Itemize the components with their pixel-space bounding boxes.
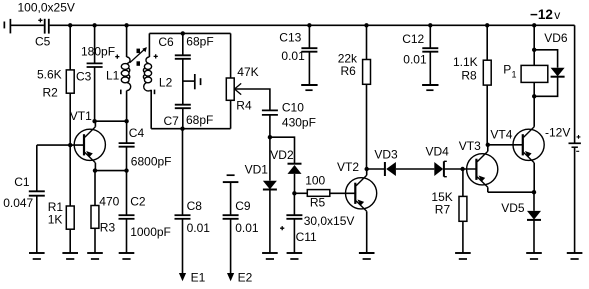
diode VD5 (pointing down) [527, 211, 541, 220]
wire: C8 top [182, 129, 184, 215]
svg-text:P: P [503, 62, 511, 76]
inductor L1 winding [121, 57, 130, 91]
junction: top rail / C13 [307, 23, 311, 27]
svg-text:0.01: 0.01 [403, 53, 427, 67]
wire: C6 bottom to C7 top [182, 59, 184, 105]
svg-text:430pF: 430pF [282, 116, 316, 130]
resistor R2 [66, 70, 74, 93]
wire: C12 to mini ground [429, 52, 431, 85]
svg-text:C12: C12 [402, 32, 424, 46]
svg-text:470: 470 [99, 195, 119, 209]
diode VD1 (pointing down) [263, 181, 277, 190]
ground under C11 [287, 253, 303, 259]
plus sign of C5 [38, 18, 42, 22]
wire: C13 top [308, 25, 310, 48]
wire: C2 to ground [126, 219, 128, 253]
svg-text:47K: 47K [237, 65, 258, 79]
wire: VD2 bottom to R5 node [294, 174, 296, 193]
wire: R2 top [69, 25, 71, 70]
junction: top rail / C3 [92, 23, 96, 27]
svg-text:v: v [554, 8, 560, 22]
R4 wiper arrow [235, 83, 242, 94]
wire: L2 bottom lead [150, 91, 152, 129]
ground under R7 [455, 253, 471, 259]
svg-text:C4: C4 [129, 126, 145, 140]
junction: collector wire / L1 / C4 [124, 119, 128, 123]
svg-text:C8: C8 [187, 199, 203, 213]
winding start tick L1 [120, 90, 122, 95]
wire: C2 top [126, 171, 128, 216]
wire: L1 bottom lead [126, 91, 128, 122]
resistor R5 [307, 190, 330, 197]
wire: C4 bottom [126, 147, 128, 171]
tap terminal bar [194, 74, 196, 89]
wire: R6 top [366, 25, 368, 59]
junction: tank bottom rail / C7 / C8 [180, 127, 184, 131]
wire: C1 to ground [36, 196, 38, 253]
capacitor C8 [175, 215, 191, 219]
transformer core dashes [137, 49, 141, 66]
transistor VT4 (PNP) [513, 127, 544, 163]
svg-text:180pF: 180pF [81, 44, 115, 58]
wire: R5 right to VT2 base [330, 192, 356, 194]
relay coil P1 [521, 65, 548, 82]
wire: VT3 collector to VT4 base [488, 144, 524, 146]
wire: R7 to ground [462, 221, 464, 252]
transistor VT1 (PNP) [74, 127, 105, 163]
svg-text:R8: R8 [461, 68, 477, 82]
svg-text:VT3: VT3 [459, 139, 481, 153]
E1 output arrow [179, 273, 186, 281]
svg-text:VT4: VT4 [490, 128, 512, 142]
wire: R4 top stub [230, 33, 232, 78]
wire: L2/C6/R4 top rail [149, 32, 230, 34]
capacitor C2 [119, 215, 135, 219]
battery GB1 [569, 143, 581, 147]
transistor VT2 (PNP) [346, 175, 377, 211]
resistor R6 [363, 60, 371, 85]
svg-text:L2: L2 [159, 75, 173, 89]
wire: VT3 emitter stub [487, 187, 489, 192]
wire: VD3 left [367, 168, 385, 170]
svg-text:0.01: 0.01 [187, 221, 211, 235]
ground under R1 [62, 253, 78, 259]
wire: C12 top [429, 25, 431, 48]
svg-text:R2: R2 [43, 86, 59, 100]
svg-text:100: 100 [305, 174, 325, 188]
svg-text:VD5: VD5 [501, 201, 525, 215]
ground under VD5 [526, 253, 542, 259]
junction: top rail / C12 [428, 23, 432, 27]
winding start tick L2 [154, 90, 156, 95]
wire: R1 to ground [69, 229, 71, 252]
wire: VD4 to VT3 base [444, 168, 476, 170]
svg-text:1: 1 [512, 70, 517, 80]
battery minus tick [576, 150, 579, 152]
junction: emitter wire / C4 / C2 [124, 168, 128, 172]
wire: VT2 emitter stub [366, 211, 368, 252]
wire: tank bottom rail [151, 128, 230, 130]
E2 output arrow [227, 273, 234, 281]
wire: C13 to mini ground [308, 52, 310, 85]
wire: VT1 emitter stub [94, 163, 96, 171]
junction: relay bottom / VD6 bottom / VT4 collector [532, 94, 536, 98]
wire: -12V top rail [50, 24, 575, 26]
svg-text:1K: 1K [48, 213, 63, 227]
wire: L1 top lead [126, 25, 128, 57]
wire: relay branch top [533, 25, 535, 50]
mini ground under C13 [301, 85, 317, 90]
svg-text:C3: C3 [76, 70, 92, 84]
svg-text:C13: C13 [279, 31, 301, 45]
svg-text:R3: R3 [100, 220, 116, 234]
svg-text:6800pF: 6800pF [131, 155, 172, 169]
svg-text:C9: C9 [235, 199, 251, 213]
wire: battery to ground [574, 147, 576, 252]
input terminal bar [9, 19, 11, 34]
wire: VD1 top [269, 137, 271, 180]
wire: C9 top [230, 182, 232, 215]
svg-text:VD1: VD1 [245, 163, 269, 177]
wire: C10 bottom to VD1/VD2 node [269, 115, 271, 137]
svg-text:R5: R5 [310, 196, 326, 210]
junction: R8 / VT3 collector / VT4 base [486, 143, 490, 147]
wire: R8 bottom [486, 85, 488, 145]
svg-text:5.6K: 5.6K [37, 68, 62, 82]
wire: VT3 collector stub [487, 145, 489, 152]
svg-text:R7: R7 [435, 203, 451, 217]
junction: R6 / VT2 collector / VD3 [365, 167, 369, 171]
wire: VT1 collector wire [95, 120, 127, 122]
svg-text:-12V: -12V [545, 126, 570, 140]
svg-text:68pF: 68pF [186, 113, 213, 127]
wire: VT1 base wire [37, 144, 84, 146]
wire: VD6 bottom branch [534, 77, 557, 97]
ground under R3 [87, 253, 103, 259]
capacitor C12 [422, 48, 438, 52]
capacitor C1 [29, 191, 45, 195]
junction: top rail / relay branch [532, 23, 536, 27]
capacitor C4 [119, 143, 135, 147]
junction: top rail / R2 [68, 23, 72, 27]
wire: VT1 collector stub [94, 121, 96, 127]
svg-text:VT2: VT2 [337, 160, 359, 174]
wire: C4 top [126, 121, 128, 143]
resistor R4 (potentiometer) [226, 78, 234, 100]
svg-text:C7: C7 [164, 114, 180, 128]
capacitor C13 [301, 48, 317, 52]
diode VD3 (pointing left) [385, 162, 396, 176]
svg-text:1.1K: 1.1K [453, 55, 478, 69]
junction: top rail / R6 [364, 23, 368, 27]
wire: VT3 emitter to VT4 emitter [488, 191, 534, 193]
inverted ground above C9 [223, 175, 239, 182]
ground under VD1 [262, 253, 278, 259]
resistor R8 [483, 60, 491, 85]
svg-text:0.01: 0.01 [235, 221, 259, 235]
svg-text:L1: L1 [106, 69, 120, 83]
svg-text:100,0x25V: 100,0x25V [18, 1, 75, 15]
junction: top tank rail / C6 [181, 31, 185, 35]
wire: VD1 to ground [269, 190, 271, 253]
svg-text:C1: C1 [14, 175, 30, 189]
capacitor C11 (electrolytic) [286, 215, 302, 219]
junction: base wire / R2 / R1 [68, 143, 72, 147]
svg-text:0.01: 0.01 [281, 49, 305, 63]
wire: C3 bottom to VT1 collector node [94, 67, 96, 121]
wire: R3 top [94, 171, 96, 206]
plus sign C11 [280, 226, 284, 230]
svg-text:R6: R6 [341, 64, 357, 78]
battery plus sign [577, 135, 581, 139]
wire: relay top to coil [533, 50, 535, 66]
svg-text:VD4: VD4 [426, 144, 450, 158]
diode VD2 (pointing up) [288, 164, 302, 174]
svg-text:E1: E1 [191, 271, 206, 285]
capacitor C9 [223, 215, 239, 219]
svg-text:VD6: VD6 [544, 31, 568, 45]
wire: tap to terminal [183, 80, 195, 82]
wire: C11 top [293, 193, 295, 215]
svg-text:1000pF: 1000pF [130, 225, 171, 239]
wire: R8 top [486, 25, 488, 60]
wire: VD3 to VD4 [396, 168, 434, 170]
junction: VD2 / R5 / C11 [292, 191, 296, 195]
svg-text:R4: R4 [236, 99, 252, 113]
svg-text:C10: C10 [282, 101, 304, 115]
junction: VT4 emitter / VD5 [532, 190, 536, 194]
wire: R1 top [69, 145, 71, 206]
transistor VT3 (PNP) [467, 151, 498, 187]
plus sign L1 [115, 55, 119, 59]
wire: L2 top lead [148, 33, 150, 57]
wire: battery drop from top rail [574, 25, 576, 143]
wire: R6 bottom to VT2 collector node [366, 84, 368, 169]
inductor L2 winding [143, 57, 151, 91]
wire: R4 bottom [230, 100, 232, 128]
wire: input lead to C5 [10, 24, 44, 26]
wire: C11 to ground [293, 219, 295, 253]
wire: VD5 to ground [533, 220, 535, 253]
resistor R3 [91, 206, 99, 229]
capacitor C3 [87, 63, 103, 67]
node label I (input) [4, 22, 6, 29]
svg-text:30,0x15V: 30,0x15V [304, 214, 355, 228]
wire: VT1 emitter wire [95, 170, 127, 172]
capacitor C7 [175, 105, 191, 109]
node label I (tap) [200, 78, 202, 85]
wire: C7 bottom to tank bottom rail [182, 108, 184, 129]
svg-text:0.047: 0.047 [3, 196, 33, 210]
wire: VT2 collector stub [366, 169, 368, 175]
wire: C8 to E1 arrow [182, 219, 184, 274]
svg-text:VD2: VD2 [270, 148, 294, 162]
wire: C1 branch down [36, 145, 38, 191]
junction: top rail / R8 [485, 23, 489, 27]
ground under battery [567, 253, 583, 259]
svg-text:−12: −12 [530, 7, 553, 22]
wire: VT4 emitter stub [533, 163, 535, 192]
svg-text:C2: C2 [130, 195, 146, 209]
junction: emitter wire / R3 [93, 168, 97, 172]
junction: C10 / VD1 / VD2 wire [268, 135, 272, 139]
ground under VT2 [359, 253, 375, 259]
wire: relay coil bottom [533, 82, 535, 96]
resistor R1 [66, 206, 74, 229]
wire: VT4 collector stub [533, 96, 535, 127]
junction: VD4 / R7 / VT3 base [460, 167, 464, 171]
svg-text:C5: C5 [35, 34, 51, 48]
mini ground under C12 [422, 85, 438, 90]
wire: R3 to ground [94, 228, 96, 252]
junction: relay top / VD6 top [532, 48, 536, 52]
plus sign L2 [154, 54, 158, 58]
wire: C9 to E2 arrow [230, 219, 232, 274]
svg-text:VD3: VD3 [374, 148, 398, 162]
wire: R5 left to VD2 node [294, 192, 307, 194]
wire: R4 wiper to C10 [235, 89, 270, 110]
wire: node to VD2 [270, 137, 295, 163]
diode VD6 (pointing down) [551, 68, 565, 77]
ground under C1 [29, 253, 45, 259]
svg-text:C6: C6 [158, 35, 174, 49]
tuning arrow across L1/L2 [130, 47, 147, 63]
wire: C3 top [94, 25, 96, 63]
resistor R7 [459, 196, 467, 221]
ground under C2 [119, 253, 135, 259]
wire: C6 top stub [182, 33, 184, 55]
svg-text:68pF: 68pF [186, 34, 213, 48]
svg-text:VT1: VT1 [70, 109, 92, 123]
capacitor C6 [175, 55, 191, 59]
wire: VD5 top [533, 192, 535, 211]
capacitor C10 [262, 110, 278, 115]
svg-text:C11: C11 [296, 230, 317, 244]
junction: collector wire / C3 [92, 119, 96, 123]
junction: top rail / L1 [124, 23, 128, 27]
diode VD4 (pointing right) [434, 161, 447, 176]
capacitor C5 (electrolytic) [45, 19, 49, 34]
svg-text:E2: E2 [238, 271, 253, 285]
wire: R7 top [462, 169, 464, 196]
wire: VD6 top branch [534, 50, 557, 68]
wire: R2 bottom to VT1 base node [69, 93, 71, 145]
